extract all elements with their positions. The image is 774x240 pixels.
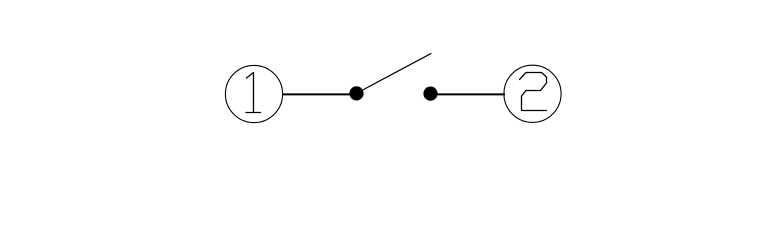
wire from right switch contact to node 2 bbox=[435, 93, 505, 95]
switch left contact (junction dot) bbox=[349, 86, 363, 100]
node 2 (terminal circle) bbox=[504, 65, 561, 122]
switch right contact (junction dot) bbox=[423, 87, 437, 101]
label "2" of node 2 bbox=[520, 73, 547, 111]
wire from node 1 to left switch contact bbox=[283, 93, 353, 95]
switch lever (open blade) bbox=[357, 53, 431, 93]
label "1" of node 1 bbox=[246, 73, 261, 113]
node 1 (terminal circle) bbox=[225, 65, 282, 122]
